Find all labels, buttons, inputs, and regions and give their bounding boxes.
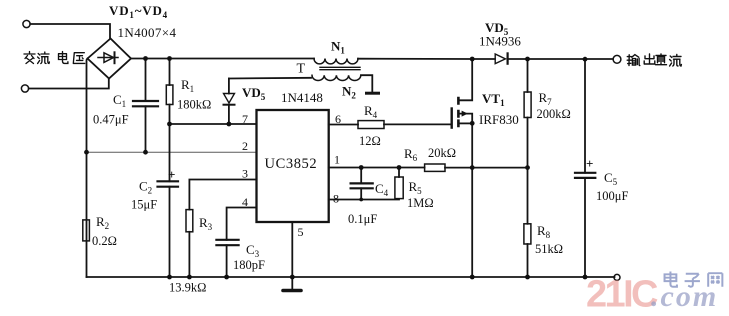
svg-text:1N4007×4: 1N4007×4 <box>118 25 177 40</box>
svg-text:200kΩ: 200kΩ <box>537 107 571 121</box>
capacitor C4 <box>351 168 373 200</box>
svg-text:6: 6 <box>335 112 341 126</box>
AC input terminal bottom <box>21 85 28 92</box>
transistor Q1 VT1 IRF830 <box>452 59 473 128</box>
wire <box>29 79 109 89</box>
svg-text:1MΩ: 1MΩ <box>407 196 434 210</box>
svg-text:+: + <box>586 156 593 171</box>
capacitor C5 <box>575 59 595 277</box>
IC U1 UC3852 <box>257 110 329 222</box>
svg-text:4: 4 <box>242 195 248 209</box>
resistor R5 <box>395 168 403 199</box>
wire bottom rail <box>87 276 615 278</box>
svg-text:5: 5 <box>298 225 304 239</box>
wire bridge left to bottom rail (R2 branch) <box>87 59 88 278</box>
bridge diode symbol <box>98 52 118 63</box>
svg-text:C2: C2 <box>139 179 152 196</box>
wire pin7 <box>170 123 257 125</box>
svg-text:3: 3 <box>242 167 248 181</box>
svg-text:100μF: 100μF <box>596 189 628 203</box>
output terminal bottom <box>614 274 620 280</box>
svg-text:+: + <box>168 167 175 182</box>
svg-text:R7: R7 <box>539 90 553 107</box>
bridge rectifier VD1-VD4 <box>88 39 132 79</box>
svg-text:0.1μF: 0.1μF <box>348 212 377 226</box>
transformer N1 winding <box>314 59 358 64</box>
svg-text:180pF: 180pF <box>233 258 265 272</box>
wire pin8 <box>329 199 399 201</box>
wire pin2 (thin) <box>87 151 257 153</box>
svg-text:N1: N1 <box>331 39 345 56</box>
resistor R7 <box>524 59 531 168</box>
wire pin6 + resistor R4 <box>329 121 451 129</box>
svg-text:VT1: VT1 <box>482 91 505 108</box>
wire N2 right end <box>361 75 372 91</box>
wire top rail to output <box>508 58 613 60</box>
svg-text:VD5: VD5 <box>242 85 266 102</box>
wire <box>30 24 110 39</box>
svg-text:20kΩ: 20kΩ <box>428 146 456 160</box>
svg-text:R4: R4 <box>364 103 378 120</box>
N2 end bar <box>367 92 379 95</box>
resistor R2 <box>83 220 90 241</box>
svg-text:R6: R6 <box>404 146 418 163</box>
svg-text:0.2Ω: 0.2Ω <box>92 234 117 248</box>
svg-text:C4: C4 <box>375 181 389 198</box>
svg-text:13.9kΩ: 13.9kΩ <box>169 281 206 295</box>
capacitor C1 <box>133 59 158 153</box>
wire VT1 source down <box>471 123 473 277</box>
svg-text:1: 1 <box>334 153 340 167</box>
transformer N2 winding <box>312 75 361 80</box>
watermark 21IC <box>586 274 718 316</box>
wire top rail right <box>358 58 495 60</box>
svg-text:2: 2 <box>242 139 248 153</box>
resistor R6 <box>425 164 445 171</box>
wire pin3 + resistor R3 <box>186 180 257 278</box>
svg-text:R5: R5 <box>409 179 423 196</box>
svg-text:IRF830: IRF830 <box>479 112 519 127</box>
output terminal <box>613 55 621 63</box>
svg-text:C1: C1 <box>113 92 126 109</box>
svg-text:12Ω: 12Ω <box>359 134 381 148</box>
svg-text:VD1~VD4: VD1~VD4 <box>109 3 168 20</box>
transformer core <box>320 67 360 69</box>
svg-text:15μF: 15μF <box>131 198 157 212</box>
resistor R8 <box>524 168 531 277</box>
svg-text:51kΩ: 51kΩ <box>535 242 563 256</box>
svg-text:R8: R8 <box>537 223 551 240</box>
svg-text:180kΩ: 180kΩ <box>177 98 211 112</box>
ground <box>283 289 301 293</box>
svg-text:21IC: 21IC <box>586 274 658 316</box>
label AC input (Chinese: jiao liu dian ya) <box>24 52 85 64</box>
wire pin4 + capacitor C3 <box>216 208 256 278</box>
svg-text:N2: N2 <box>342 84 356 101</box>
AC input terminal top <box>23 20 30 27</box>
svg-text:R2: R2 <box>96 214 109 231</box>
diode VD5b 1N4936 <box>495 53 507 63</box>
svg-text:R1: R1 <box>181 77 194 94</box>
wire pin5 <box>291 222 293 289</box>
svg-text:T: T <box>297 62 306 77</box>
svg-text:C5: C5 <box>604 170 618 187</box>
diode VD5 1N4148 <box>224 79 235 125</box>
svg-text:1N4936: 1N4936 <box>479 34 521 49</box>
wire top rail left <box>131 58 314 60</box>
svg-text:C3: C3 <box>246 242 260 259</box>
wire VD5 to N2 <box>229 77 311 80</box>
svg-text:7: 7 <box>242 112 248 126</box>
wire pin1 to R7 <box>329 167 528 169</box>
resistor R1 <box>166 59 173 125</box>
svg-text:0.47μF: 0.47μF <box>93 113 129 127</box>
svg-text:1N4148: 1N4148 <box>281 90 323 105</box>
svg-text:UC3852: UC3852 <box>265 156 318 172</box>
watermark dianziwang (Chinese) <box>665 272 723 287</box>
svg-text:8: 8 <box>333 192 339 206</box>
svg-text:R3: R3 <box>199 215 213 232</box>
label DC output (Chinese: shu chu zhi liu) <box>627 54 681 66</box>
capacitor C2 <box>158 124 179 277</box>
